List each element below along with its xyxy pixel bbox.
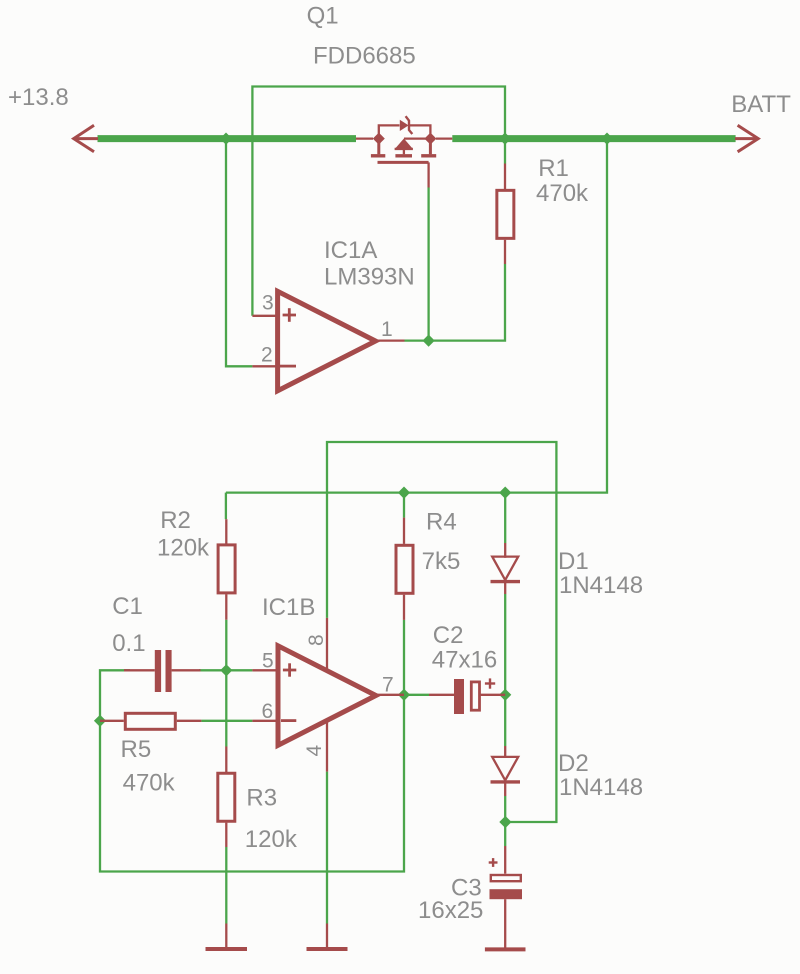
wire long net bus to lower supply rail xyxy=(226,139,607,493)
svg-text:C1: C1 xyxy=(112,593,143,620)
svg-text:7: 7 xyxy=(382,673,394,696)
svg-text:D1: D1 xyxy=(558,548,589,575)
svg-text:+13.8: +13.8 xyxy=(8,84,69,111)
junction output node xyxy=(423,335,435,347)
svg-text:1N4148: 1N4148 xyxy=(559,572,643,599)
node BATT arrow xyxy=(735,125,758,152)
svg-text:120k: 120k xyxy=(245,826,298,853)
svg-text:R1: R1 xyxy=(538,155,569,182)
ground symbol at pin4 xyxy=(307,924,348,950)
svg-text:LM393N: LM393N xyxy=(324,264,415,291)
wire C1 left loop down to bottom rail and up to pin7 node xyxy=(100,670,404,871)
wire D2 cathode to node xyxy=(504,796,506,822)
junction D2-C3 node xyxy=(499,816,511,828)
svg-text:470k: 470k xyxy=(536,180,589,207)
wire rail to D1 anode xyxy=(504,493,506,543)
wire pin8 loop net xyxy=(327,442,556,822)
wire pin3 net: IC1A pin 3 up over Q1 to bus xyxy=(252,87,505,316)
resistor R3 xyxy=(218,747,235,848)
resistor R2 xyxy=(218,519,235,620)
junction pin5 node xyxy=(220,664,232,676)
wire output node to pin 1 xyxy=(405,339,429,341)
capacitor C1 xyxy=(124,650,201,692)
svg-text:Q1: Q1 xyxy=(307,3,339,30)
svg-text:1: 1 xyxy=(381,318,393,341)
svg-text:5: 5 xyxy=(262,650,274,673)
resistor R5 xyxy=(100,713,201,729)
junction bus-pin2 xyxy=(220,133,232,145)
capacitor C2 xyxy=(429,678,505,714)
diode D2 xyxy=(491,746,521,796)
capacitor C3 xyxy=(489,846,522,948)
resistor R4 xyxy=(396,518,413,620)
wire R1 bottom to output node xyxy=(429,264,505,341)
svg-text:470k: 470k xyxy=(123,770,176,797)
wire pin7 node to C2 left xyxy=(404,694,429,696)
ground symbol at R3 xyxy=(206,924,248,950)
junction bus-long net xyxy=(601,133,613,145)
node +13.8 arrow xyxy=(74,125,98,152)
wire D1 cathode to C2 node xyxy=(504,594,506,695)
svg-text:7k5: 7k5 xyxy=(422,548,461,575)
wire rail to R4 top xyxy=(403,493,405,518)
svg-text:R3: R3 xyxy=(246,785,277,812)
wire pin5 node down to R3 top xyxy=(225,670,227,746)
junction pin7 node xyxy=(398,689,410,701)
junction rail-R4 xyxy=(398,487,410,499)
svg-text:6: 6 xyxy=(262,700,274,723)
wire bus to R1 top xyxy=(504,139,506,164)
transistor Q1 xyxy=(356,116,452,187)
op-amp IC1A xyxy=(252,291,404,391)
svg-text:R4: R4 xyxy=(426,509,457,536)
svg-text:47x16: 47x16 xyxy=(432,647,497,674)
wire C1 right to pin5 xyxy=(199,669,252,671)
op-amp IC1B xyxy=(252,618,404,772)
wire rail to R2 top xyxy=(225,493,227,520)
wire node to C3 top xyxy=(504,822,506,846)
junction C2-D1-D2 node xyxy=(499,689,511,701)
resistor R1 xyxy=(497,164,514,265)
wire gate of Q1 down to output node xyxy=(427,188,429,341)
wire bus +13.8/BATT left segment xyxy=(98,135,357,142)
svg-text:2: 2 xyxy=(261,344,273,367)
svg-text:BATT: BATT xyxy=(731,91,791,118)
svg-text:R5: R5 xyxy=(121,736,152,763)
junction rail-D1 xyxy=(499,487,511,499)
svg-text:4: 4 xyxy=(303,745,326,757)
diode D1 xyxy=(491,543,521,594)
svg-text:3: 3 xyxy=(262,291,274,314)
svg-text:IC1B: IC1B xyxy=(262,594,315,621)
wire C2 node to D2 anode xyxy=(504,695,506,746)
wire bus +13.8/BATT right segment xyxy=(452,135,735,142)
svg-text:1N4148: 1N4148 xyxy=(559,774,643,801)
svg-text:D2: D2 xyxy=(558,750,589,777)
svg-text:FDD6685: FDD6685 xyxy=(313,43,416,70)
svg-text:16x25: 16x25 xyxy=(418,897,483,924)
ground symbol at C3 xyxy=(485,947,526,951)
svg-text:8: 8 xyxy=(305,634,328,646)
wire R2 bottom to node at pin5 xyxy=(225,620,227,671)
wire R3 bottom to ground xyxy=(225,847,227,924)
wire pin4 to ground xyxy=(326,772,328,924)
svg-text:IC1A: IC1A xyxy=(324,237,377,264)
junction bus-R1 xyxy=(499,133,511,145)
svg-text:C2: C2 xyxy=(433,622,464,649)
svg-text:R2: R2 xyxy=(160,507,191,534)
junction R5-C1 node xyxy=(94,715,106,727)
svg-text:120k: 120k xyxy=(157,535,210,562)
wire pin2 net: bus to IC1A pin 2 xyxy=(226,142,252,366)
wire R4 bottom to pin7 node xyxy=(403,620,405,695)
svg-text:0.1: 0.1 xyxy=(112,630,145,657)
wire R5 right to pin6 xyxy=(201,720,252,722)
